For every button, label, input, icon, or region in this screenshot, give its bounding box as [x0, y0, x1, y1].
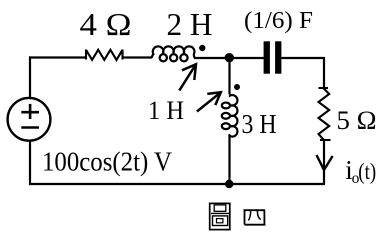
- wire between R1 and L1: [123, 56, 153, 58]
- capacitor C1 (1/6)F left plate: [264, 41, 270, 73]
- voltage source VS circle: [8, 98, 51, 141]
- svg-text:3 H: 3 H: [242, 109, 277, 139]
- wire right vertical upper: [323, 57, 325, 88]
- wire left vertical upper: [29, 56, 31, 98]
- arrow io(t) current: [317, 155, 333, 170]
- voltage source minus sign: [21, 126, 39, 129]
- node B junction dot bottom: [225, 180, 233, 188]
- wire bottom horizontal: [29, 183, 325, 185]
- arrow for mutual inductance to L2: [197, 92, 221, 111]
- wire left vertical lower: [29, 140, 31, 185]
- svg-text:(1/6) F: (1/6) F: [244, 8, 313, 34]
- svg-text:5 Ω: 5 Ω: [337, 106, 377, 135]
- wire right vertical lower: [323, 140, 325, 184]
- caption hanzi TU (figure): [210, 203, 230, 229]
- inductor L1 2H: [152, 46, 195, 61]
- arrow for mutual inductance to L1: [179, 64, 196, 90]
- caption hanzi SI (four): [244, 210, 266, 225]
- voltage source plus sign: [21, 104, 39, 119]
- mutual coupling dot near L1: [199, 45, 205, 51]
- node A junction dot top: [225, 53, 234, 62]
- resistor R1 4ohm: [86, 50, 123, 60]
- svg-text:(t): (t): [358, 159, 376, 185]
- wire from L1 through node to capacitor: [194, 57, 264, 59]
- mutual coupling dot near L2: [234, 84, 240, 90]
- svg-text:2 H: 2 H: [167, 6, 213, 42]
- resistor R2 5ohm: [319, 88, 331, 140]
- inductor L2 3H: [222, 95, 238, 137]
- wire top-left horizontal: [29, 56, 86, 58]
- wire middle vertical upper: [228, 58, 230, 95]
- wire middle vertical lower: [228, 135, 230, 184]
- wire capacitor to right corner: [282, 57, 325, 59]
- svg-text:100cos(2t) V: 100cos(2t) V: [42, 146, 172, 177]
- svg-text:1 H: 1 H: [148, 95, 184, 125]
- capacitor C1 right plate: [275, 41, 281, 73]
- svg-text:4 Ω: 4 Ω: [80, 6, 132, 42]
